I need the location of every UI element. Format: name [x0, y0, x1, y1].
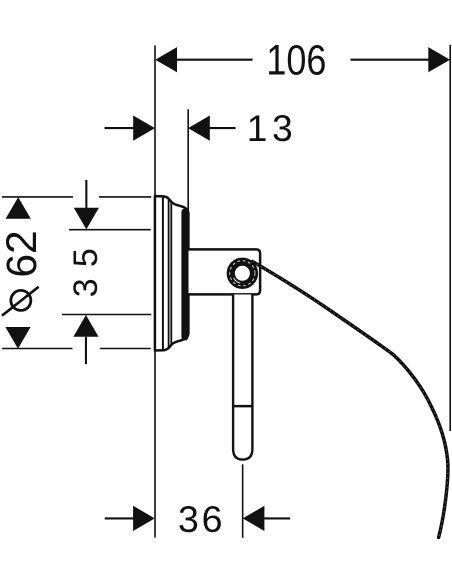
wall plate (escutcheon) outline [155, 196, 189, 350]
dimension 35 top tail [85, 180, 87, 208]
dimension 106 right arrow [428, 47, 450, 72]
wall plate inner contour line 1 [162, 197, 164, 350]
extension line top of plate (y=196.9) right segment [99, 196, 151, 198]
holder arm bracket [189, 249, 261, 294]
dimension 35 up arrow [73, 315, 98, 337]
dimension 13 tail left [105, 127, 135, 129]
extension line top of plate (y=196.9) left segment [2, 196, 73, 198]
dimension 13 tail right [209, 127, 236, 129]
roller pin inner hole [235, 266, 250, 281]
dimension 36 tail right [264, 517, 290, 519]
dimension 106 left arrow [155, 47, 177, 72]
dimension 106 line left segment [177, 59, 253, 61]
dimension dia62 diameter symbol circle [11, 290, 31, 310]
wall plate inner contour line 2 [168, 200, 170, 348]
dimension dia62 bottom arrow [5, 327, 30, 349]
extension line 35-top (y=229.7) [69, 229, 151, 231]
svg-text:62: 62 [0, 230, 46, 277]
roller pin disc [228, 259, 256, 287]
extension line 35-bottom (y=314.5) [62, 314, 151, 316]
dimension dia62 top arrow [6, 197, 31, 219]
extension line C (right, x=450.2) [449, 45, 451, 431]
dimension 13 right arrow [188, 116, 210, 141]
roller pin inner highlight arc [234, 278, 241, 283]
dimension dia62 diameter symbol slash [2, 287, 39, 316]
dimension 36 right arrow [243, 506, 265, 531]
dimension 36 left arrow [133, 506, 155, 531]
dimension 13 left arrow [133, 116, 155, 141]
center line of rod (x=242.65) [242, 464, 244, 538]
dimension 35 bottom tail [85, 337, 87, 364]
lower rod (paper guard) [233, 295, 252, 460]
extension line A (left/wall reference, x=155) [154, 45, 156, 537]
wall plate front face band [181, 212, 188, 337]
extension line bottom of plate (y=348.5) left segment [2, 348, 73, 350]
extension line bottom of plate (y=348.5) right segment [100, 348, 151, 350]
dimension 36 tail left [105, 517, 134, 519]
wall plate inner contour line 3 [170, 202, 172, 344]
dimension 106 line right segment [351, 59, 429, 61]
extension line B (13 dim right, x=188.2) [187, 109, 189, 211]
roller pin dotted ring [230, 261, 255, 286]
cord highlight dashes [253, 262, 448, 538]
svg-text:106: 106 [266, 38, 326, 85]
rod joint line [233, 405, 252, 408]
dimension 35 down arrow [74, 208, 99, 230]
cord (spiral cable) [253, 262, 448, 538]
